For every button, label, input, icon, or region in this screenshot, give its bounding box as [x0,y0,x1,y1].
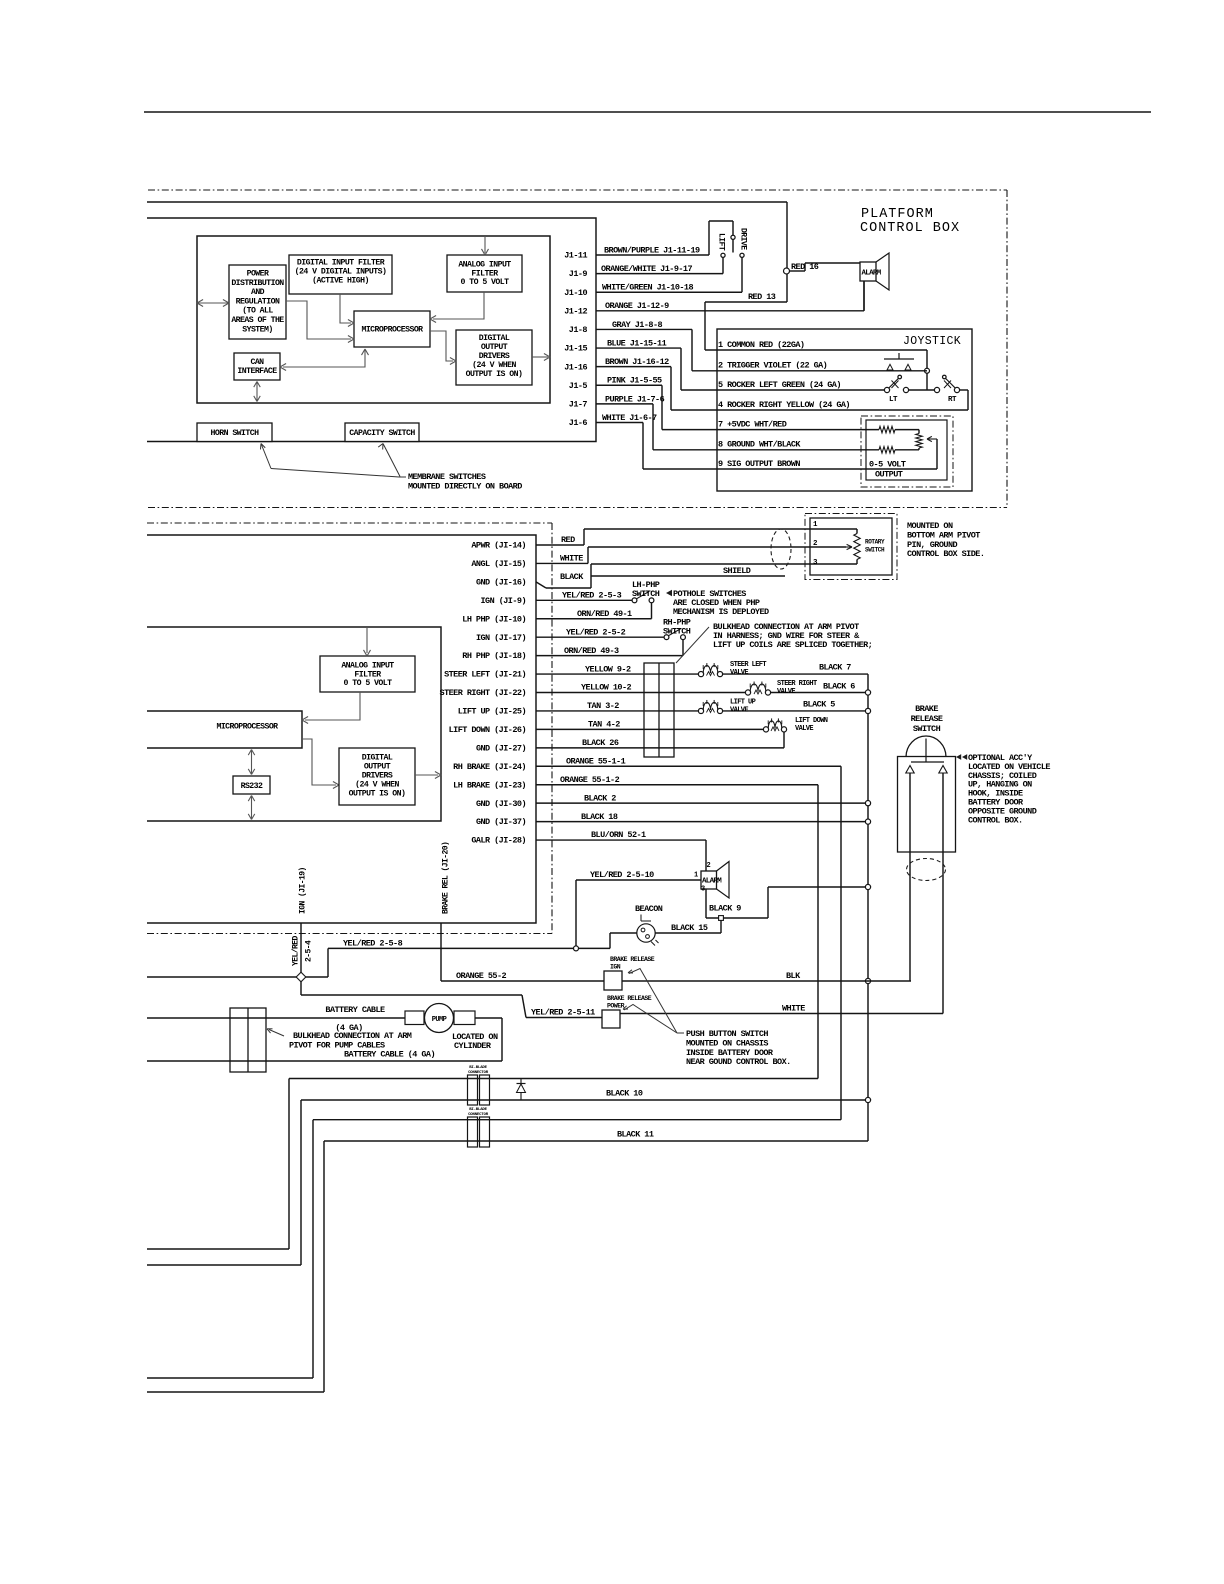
svg-text:PUMP: PUMP [432,1016,447,1024]
svg-text:GND (JI-27): GND (JI-27) [476,743,526,753]
svg-text:ANALOG INPUT: ANALOG INPUT [458,261,511,270]
svg-text:J1-5: J1-5 [569,381,588,391]
svg-text:YEL/RED 2-5-2: YEL/RED 2-5-2 [566,627,626,637]
svg-text:BLACK 18: BLACK 18 [581,812,618,822]
svg-text:RH PHP (JI-18): RH PHP (JI-18) [462,651,526,661]
svg-text:ORANGE/WHITE J1-9-17: ORANGE/WHITE J1-9-17 [601,264,692,274]
svg-text:BRAKE REL (JI-20): BRAKE REL (JI-20) [442,842,451,914]
svg-text:IGN (JI-17): IGN (JI-17) [476,633,526,643]
svg-text:SWITCH: SWITCH [632,589,660,599]
svg-text:(ACTIVE HIGH): (ACTIVE HIGH) [312,276,369,286]
svg-text:8 GROUND WHT/BLACK: 8 GROUND WHT/BLACK [718,440,801,450]
svg-text:RED 16: RED 16 [791,262,819,272]
svg-text:LH PHP (JI-10): LH PHP (JI-10) [462,614,526,624]
svg-text:VALVE: VALVE [730,706,748,714]
svg-text:TAN 3-2: TAN 3-2 [587,701,619,711]
svg-text:CONNECTOR: CONNECTOR [468,1071,489,1075]
svg-text:PLATFORM: PLATFORM [861,207,934,222]
svg-text:DRIVERS: DRIVERS [479,352,510,361]
svg-text:RS232: RS232 [241,782,263,791]
svg-text:INTERFACE: INTERFACE [237,367,277,376]
svg-text:J1-9: J1-9 [569,269,588,279]
svg-text:5 ROCKER LEFT GREEN (24 GA): 5 ROCKER LEFT GREEN (24 GA) [718,380,841,390]
svg-text:BLUE J1-15-11: BLUE J1-15-11 [607,338,667,348]
svg-text:CAPACITY SWITCH: CAPACITY SWITCH [349,429,415,438]
svg-text:YEL/RED 2-5-3: YEL/RED 2-5-3 [562,591,622,601]
svg-text:OUTPUT: OUTPUT [875,470,903,480]
svg-text:WHITE/GREEN J1-10-18: WHITE/GREEN J1-10-18 [602,283,693,293]
svg-text:DIGITAL: DIGITAL [479,334,510,343]
svg-text:2 TRIGGER VIOLET (22 GA): 2 TRIGGER VIOLET (22 GA) [718,361,827,371]
svg-text:SWITCH: SWITCH [913,724,941,734]
svg-text:PINK J1-5-55: PINK J1-5-55 [607,376,662,386]
svg-text:(24 V DIGITAL INPUTS): (24 V DIGITAL INPUTS) [295,267,387,277]
svg-text:BLACK 11: BLACK 11 [617,1130,654,1140]
svg-text:YELLOW 9-2: YELLOW 9-2 [585,664,631,674]
svg-text:POWER: POWER [607,1003,625,1010]
svg-text:1: 1 [694,872,698,880]
svg-text:YELLOW 10-2: YELLOW 10-2 [581,683,632,693]
svg-text:2-5-4: 2-5-4 [305,940,314,962]
svg-text:YEL/RED: YEL/RED [292,935,301,966]
svg-text:BRAKE: BRAKE [915,704,938,714]
svg-text:ORANGE 55-2: ORANGE 55-2 [456,971,507,981]
svg-text:ORN/RED 49-1: ORN/RED 49-1 [577,609,632,619]
svg-text:DISTRIBUTION: DISTRIBUTION [231,279,284,288]
svg-text:SHIELD: SHIELD [723,566,751,576]
svg-text:NEAR GOUND CONTROL BOX.: NEAR GOUND CONTROL BOX. [686,1057,791,1067]
svg-text:CONTROL BOX.: CONTROL BOX. [968,815,1023,825]
svg-text:DIGITAL INPUT FILTER: DIGITAL INPUT FILTER [297,259,385,268]
svg-text:SYSTEM): SYSTEM) [242,324,273,334]
svg-text:GRAY J1-8-8: GRAY J1-8-8 [612,320,663,330]
svg-text:IGN (JI-9): IGN (JI-9) [480,596,526,606]
svg-text:BLACK: BLACK [560,572,584,582]
svg-text:WHITE: WHITE [560,554,583,564]
svg-text:WHITE: WHITE [782,1004,805,1014]
svg-text:BLACK 5: BLACK 5 [803,700,835,710]
svg-text:GND (JI-16): GND (JI-16) [476,577,526,587]
svg-text:BLACK 15: BLACK 15 [671,923,708,933]
svg-text:MICROPROCESSOR: MICROPROCESSOR [361,326,423,335]
svg-text:LIFT DOWN: LIFT DOWN [795,717,828,725]
svg-text:DRIVE: DRIVE [739,228,748,250]
svg-text:2: 2 [707,862,711,870]
svg-text:ANALOG INPUT: ANALOG INPUT [341,662,394,671]
svg-text:MECHANISM IS DEPLOYED: MECHANISM IS DEPLOYED [673,607,769,617]
svg-text:VALVE: VALVE [777,688,795,696]
svg-text:BROWN J1-16-12: BROWN J1-16-12 [605,357,669,367]
svg-text:STEER RIGHT: STEER RIGHT [777,680,817,688]
svg-text:RED 13: RED 13 [748,292,776,302]
svg-text:GND (JI-37): GND (JI-37) [476,817,526,827]
svg-text:BLACK 10: BLACK 10 [606,1089,643,1099]
svg-text:J1-12: J1-12 [564,306,587,316]
svg-text:BLK: BLK [786,971,801,981]
svg-text:BRAKE RELEASE: BRAKE RELEASE [610,956,655,963]
svg-text:J1-6: J1-6 [569,418,588,428]
svg-text:PURPLE J1-7-6: PURPLE J1-7-6 [605,394,665,404]
svg-text:ORANGE 55-1-2: ORANGE 55-1-2 [560,775,620,785]
svg-text:0 TO 5 VOLT: 0 TO 5 VOLT [461,278,510,287]
svg-text:AND: AND [251,288,265,297]
svg-text:APWR (JI-14): APWR (JI-14) [471,541,526,551]
svg-text:DRIVERS: DRIVERS [362,772,393,781]
svg-text:LIFT: LIFT [717,233,726,251]
svg-text:LIFT DOWN (JI-26): LIFT DOWN (JI-26) [449,725,526,735]
svg-text:STEER LEFT (JI-21): STEER LEFT (JI-21) [444,670,526,680]
svg-text:ORANGE 55-1-1: ORANGE 55-1-1 [566,756,626,766]
svg-text:J1-7: J1-7 [569,399,588,409]
svg-text:CONTROL BOX: CONTROL BOX [860,221,960,236]
svg-text:J1-10: J1-10 [564,288,587,298]
svg-text:RH BRAKE (JI-24): RH BRAKE (JI-24) [453,762,526,772]
svg-text:TAN 4-2: TAN 4-2 [588,720,620,730]
svg-text:(24 V WHEN: (24 V WHEN [472,360,516,370]
svg-text:FILTER: FILTER [354,670,381,679]
svg-text:ALARM: ALARM [862,270,882,278]
svg-text:(24 V WHEN: (24 V WHEN [355,780,399,790]
svg-text:BEACON: BEACON [635,904,663,914]
svg-text:J1-11: J1-11 [564,251,587,261]
svg-text:J1-16: J1-16 [564,362,587,372]
svg-text:BLU/ORN 52-1: BLU/ORN 52-1 [591,830,646,840]
svg-text:RED: RED [561,535,575,545]
svg-text:CONNECTOR: CONNECTOR [468,1113,489,1117]
svg-text:OUTPUT IS ON): OUTPUT IS ON) [349,789,406,799]
svg-text:YEL/RED 2-5-11: YEL/RED 2-5-11 [531,1008,595,1018]
svg-text:7 +5VDC WHT/RED: 7 +5VDC WHT/RED [718,419,787,429]
svg-text:YEL/RED 2-5-10: YEL/RED 2-5-10 [590,870,654,880]
svg-text:FILTER: FILTER [471,269,498,278]
svg-text:BATTERY CABLE: BATTERY CABLE [325,1005,385,1015]
svg-text:SWITCH: SWITCH [663,627,691,637]
svg-text:BLACK 9: BLACK 9 [709,904,741,914]
svg-text:MICROPROCESSOR: MICROPROCESSOR [216,723,278,732]
svg-text:SWITCH: SWITCH [865,547,885,554]
svg-text:DIGITAL: DIGITAL [362,754,393,763]
svg-text:CYLINDER: CYLINDER [454,1041,492,1051]
svg-text:ANGL (JI-15): ANGL (JI-15) [471,559,526,569]
svg-text:BLACK 7: BLACK 7 [819,663,851,673]
svg-text:RELEASE: RELEASE [911,714,943,724]
svg-text:YEL/RED 2-5-8: YEL/RED 2-5-8 [343,938,403,948]
svg-text:BLACK 26: BLACK 26 [582,738,619,748]
svg-text:AREAS OF THE: AREAS OF THE [231,316,284,325]
svg-text:OUTPUT: OUTPUT [364,763,391,772]
svg-text:REGULATION: REGULATION [236,297,280,306]
svg-text:MEMBRANE SWITCHES: MEMBRANE SWITCHES [408,472,486,482]
svg-text:IGN: IGN [610,964,621,971]
svg-text:LIFT UP (JI-25): LIFT UP (JI-25) [458,707,526,717]
svg-text:STEER LEFT: STEER LEFT [730,661,766,669]
svg-text:3: 3 [701,886,705,894]
svg-text:JOYSTICK: JOYSTICK [903,335,961,348]
svg-text:OUTPUT IS ON): OUTPUT IS ON) [466,369,523,379]
svg-text:BLACK 6: BLACK 6 [823,682,855,692]
svg-text:0-5 VOLT: 0-5 VOLT [869,460,906,470]
svg-text:CAN: CAN [250,358,264,367]
svg-text:ALARM: ALARM [702,878,722,886]
svg-text:LIFT UP: LIFT UP [730,699,756,707]
svg-text:J1-15: J1-15 [564,344,587,354]
svg-text:VALVE: VALVE [730,669,748,677]
svg-text:ORN/RED 49-3: ORN/RED 49-3 [564,646,619,656]
svg-text:LT: LT [889,396,898,404]
svg-text:J1-8: J1-8 [569,325,588,335]
svg-text:STEER RIGHT (JI-22): STEER RIGHT (JI-22) [440,688,526,698]
svg-text:CONTROL BOX SIDE.: CONTROL BOX SIDE. [907,549,984,559]
svg-text:RT: RT [948,396,957,404]
svg-text:(TO ALL: (TO ALL [242,306,273,316]
svg-text:ORANGE J1-12-9: ORANGE J1-12-9 [605,301,669,311]
svg-text:POWER: POWER [247,270,269,279]
svg-text:BRAKE RELEASE: BRAKE RELEASE [607,995,652,1002]
svg-text:HORN SWITCH: HORN SWITCH [211,429,260,438]
svg-text:BI-BLADE: BI-BLADE [469,1066,487,1070]
svg-text:4 ROCKER RIGHT YELLOW (24 GA): 4 ROCKER RIGHT YELLOW (24 GA) [718,400,850,410]
svg-text:MOUNTED DIRECTLY ON BOARD: MOUNTED DIRECTLY ON BOARD [408,482,522,492]
svg-text:WHITE J1-6-7: WHITE J1-6-7 [602,413,657,423]
svg-text:BI-BLADE: BI-BLADE [469,1108,487,1112]
svg-text:0 TO 5 VOLT: 0 TO 5 VOLT [344,679,393,688]
svg-text:VALVE: VALVE [795,725,813,733]
svg-text:LIFT UP COILS ARE SPLICED TOGE: LIFT UP COILS ARE SPLICED TOGETHER; [713,640,872,650]
svg-text:ROTARY: ROTARY [865,539,885,546]
svg-text:1 COMMON RED (22GA): 1 COMMON RED (22GA) [718,340,804,350]
svg-text:LH BRAKE (JI-23): LH BRAKE (JI-23) [453,780,526,790]
svg-text:GND (JI-30): GND (JI-30) [476,799,526,809]
svg-text:BATTERY CABLE (4 GA): BATTERY CABLE (4 GA) [344,1050,435,1060]
svg-text:GALR (JI-28): GALR (JI-28) [471,836,526,846]
svg-text:IGN (JI-19): IGN (JI-19) [299,867,308,914]
svg-text:BLACK 2: BLACK 2 [584,793,616,803]
svg-text:OUTPUT: OUTPUT [481,343,508,352]
svg-text:BROWN/PURPLE J1-11-19: BROWN/PURPLE J1-11-19 [604,245,700,255]
svg-text:9 SIG OUTPUT BROWN: 9 SIG OUTPUT BROWN [718,459,800,469]
